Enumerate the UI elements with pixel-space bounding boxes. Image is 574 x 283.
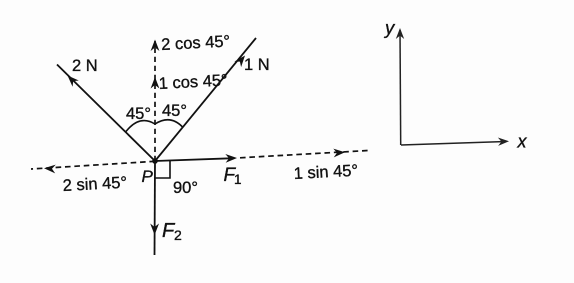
arrowhead left dashed [44,164,56,174]
label 1 cos 45° [158,71,228,93]
svg-text:P: P [142,167,154,186]
label 90° [173,179,198,197]
svg-text:2 sin 45°: 2 sin 45° [62,174,127,195]
label 2 N [72,57,98,75]
right angle square [155,161,170,178]
svg-text:2: 2 [174,227,182,243]
vector 1N line [155,38,256,161]
vector 2N line [57,65,155,162]
label P [142,167,154,186]
svg-text:2 N: 2 N [72,57,98,75]
svg-text:y: y [383,17,396,38]
label F1 [224,165,242,187]
node P (dot) [152,158,158,164]
svg-text:1 N: 1 N [244,56,270,74]
svg-text:2 cos 45°: 2 cos 45° [161,32,231,54]
label 2 cos 45° [161,32,231,54]
label 2 sin 45° [62,174,127,195]
svg-text:45°: 45° [162,102,187,120]
label x [517,132,528,152]
arrowhead 1cos45 (middle of dashed vertical) [151,77,160,89]
label y [383,17,396,38]
svg-text:1 sin 45°: 1 sin 45° [293,162,358,183]
label 45° right [162,102,187,120]
svg-text:1 cos 45°: 1 cos 45° [158,71,228,93]
dashed line right (1 sin 45 direction) [240,151,368,158]
y axis line [399,30,402,145]
svg-text:45°: 45° [126,105,151,123]
x axis arrowhead [498,137,509,146]
force F1 arrowhead [225,154,237,163]
dashed vertical projection line [154,41,156,161]
label 45° left [126,105,151,123]
svg-text:90°: 90° [173,179,198,197]
force F1 line [155,158,234,161]
dashed line left (2 sin 45 direction) [31,161,155,169]
vector 2N arrowhead [64,72,78,86]
y axis arrowhead [396,28,404,39]
x axis line [401,142,506,146]
vector 1N arrowhead [234,53,248,67]
force F2 arrowhead [150,224,159,236]
label F2 [162,220,182,243]
arrowhead right dashed [333,148,345,157]
force F2 line [154,161,157,255]
svg-text:x: x [517,132,528,152]
label 1 sin 45° [293,162,358,183]
label 1 N [244,56,270,74]
angle arc (double bump) [126,120,183,132]
svg-text:1: 1 [234,172,242,187]
arrowhead 2cos45 (top of dashed vertical) [151,40,160,52]
